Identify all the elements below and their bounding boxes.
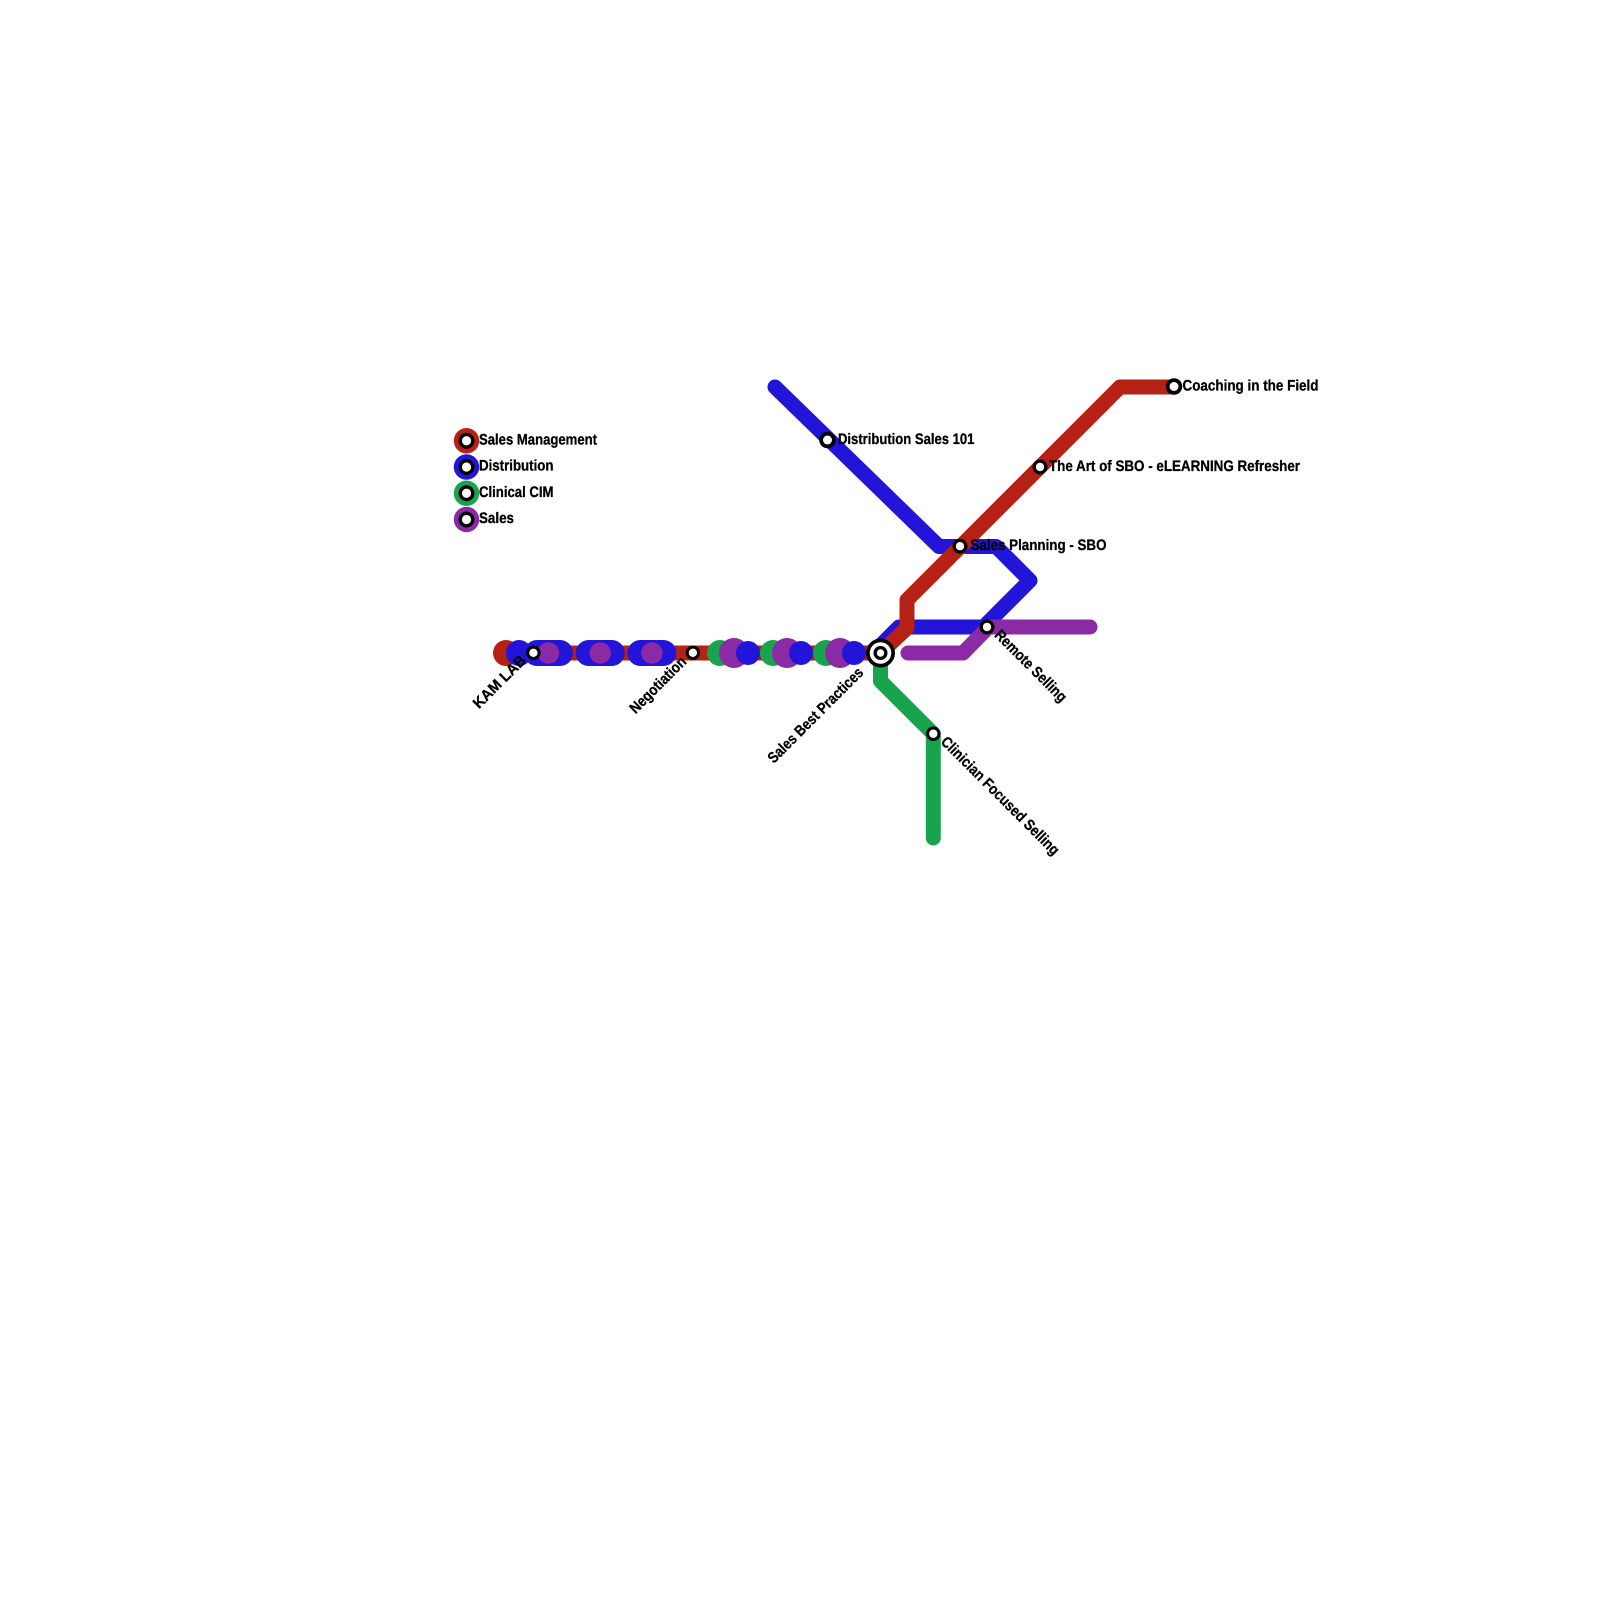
svg-text:Sales: Sales (479, 510, 514, 527)
svg-text:Distribution: Distribution (479, 458, 554, 475)
svg-text:Clinical CIM: Clinical CIM (479, 484, 554, 501)
svg-text:Sales Planning - SBO: Sales Planning - SBO (971, 537, 1107, 554)
svg-text:Sales Management: Sales Management (479, 431, 597, 448)
svg-text:The Art of SBO - eLEARNING Ref: The Art of SBO - eLEARNING Refresher (1049, 458, 1300, 475)
svg-text:Distribution Sales 101: Distribution Sales 101 (838, 431, 975, 448)
svg-text:Coaching in the Field: Coaching in the Field (1183, 377, 1319, 394)
